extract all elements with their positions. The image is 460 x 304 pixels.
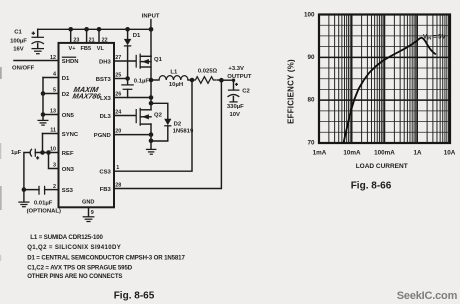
wire D1-D2-ON5 chain: [42, 78, 44, 115]
svg-text:D1: D1: [62, 76, 70, 82]
inductor L1: [151, 69, 192, 88]
chart decade gridlines: [352, 15, 418, 144]
svg-text:1A: 1A: [413, 149, 422, 156]
svg-text:ON/OFF: ON/OFF: [12, 65, 35, 71]
chart horizontal gridlines: [319, 25, 450, 132]
node Q2 drain D2 branch: [149, 101, 154, 106]
chart x-axis labels: [313, 149, 456, 156]
pin 2 SS3 wire: [45, 184, 59, 190]
svg-text:24: 24: [115, 109, 121, 115]
svg-text:REF: REF: [62, 151, 74, 157]
svg-text:PGND: PGND: [94, 133, 111, 139]
svg-text:LOAD CURRENT: LOAD CURRENT: [356, 163, 408, 170]
svg-text:SS3: SS3: [62, 188, 74, 194]
svg-text:D1: D1: [133, 33, 141, 39]
wire Q1 source to LX column: [150, 56, 152, 109]
svg-text:13: 13: [50, 109, 56, 115]
svg-text:+3.3V: +3.3V: [228, 66, 244, 72]
svg-text:V+: V+: [69, 46, 77, 52]
svg-text:80: 80: [307, 97, 315, 104]
capacitor C1: [10, 29, 44, 52]
svg-text:1: 1: [116, 165, 119, 171]
svg-text:ON5: ON5: [62, 113, 75, 119]
pin 10 REF wire: [35, 147, 58, 155]
capacitor 0.1uF BST3-LX3: [121, 78, 149, 97]
pin 24 DL3 wire: [114, 109, 136, 115]
pin 27 DH3 wire: [114, 55, 136, 61]
wire pin21: [86, 29, 88, 43]
svg-text:10µH: 10µH: [169, 82, 183, 88]
pin 4 D1 wire: [43, 72, 59, 78]
svg-text:DL3: DL3: [100, 114, 112, 120]
svg-text:D2: D2: [174, 121, 182, 127]
node INPUT junction: [149, 27, 154, 32]
svg-text:10: 10: [50, 147, 56, 153]
svg-text:SYNC: SYNC: [62, 132, 79, 138]
scan edge artifacts: [0, 67, 2, 261]
ground Q2 source: [146, 141, 157, 154]
svg-text:Fig. 8-66: Fig. 8-66: [351, 181, 392, 192]
node pin23 junction: [68, 27, 73, 32]
transistor Q2: [136, 108, 162, 126]
svg-text:4: 4: [53, 72, 56, 78]
svg-text:Q1,Q2 = SILICONIX SI9410DY: Q1,Q2 = SILICONIX SI9410DY: [27, 244, 121, 251]
svg-text:VL: VL: [97, 46, 105, 52]
svg-text:10mA: 10mA: [343, 149, 361, 156]
chart minor vertical gridlines: [329, 15, 449, 144]
svg-text:CS3: CS3: [99, 170, 111, 176]
svg-text:LX3: LX3: [100, 96, 112, 102]
svg-text:100mA: 100mA: [374, 149, 395, 156]
diode D1: [124, 29, 141, 78]
svg-text:10V: 10V: [230, 112, 241, 118]
svg-text:OTHER PINS ARE NO CONNECTS: OTHER PINS ARE NO CONNECTS: [27, 273, 122, 280]
diode D2: [151, 103, 194, 141]
svg-text:28: 28: [115, 182, 121, 188]
pin 1 CS3 wire: [114, 80, 192, 171]
wire pin22: [98, 29, 100, 43]
svg-text:70: 70: [307, 140, 315, 147]
svg-text:BST3: BST3: [96, 77, 112, 83]
svg-text:100µF: 100µF: [10, 39, 27, 45]
svg-text:0.01µF: 0.01µF: [34, 200, 53, 206]
pin 25 BST3 wire: [114, 72, 130, 80]
svg-text:(OPTIONAL): (OPTIONAL): [27, 209, 61, 215]
svg-text:16V: 16V: [13, 47, 24, 53]
svg-text:1N5819: 1N5819: [173, 128, 194, 134]
svg-text:INPUT: INPUT: [142, 14, 160, 20]
svg-text:OUTPUT: OUTPUT: [227, 74, 252, 80]
node pin22 junction: [97, 27, 102, 32]
svg-text:27: 27: [115, 55, 121, 61]
svg-text:D1 = CENTRAL SEMICONDUCTOR CMP: D1 = CENTRAL SEMICONDUCTOR CMPSH-3 OR 1N…: [27, 254, 185, 261]
svg-text:2: 2: [53, 184, 56, 190]
capacitor 0.01uF on SS3: [22, 186, 61, 215]
svg-text:ON3: ON3: [62, 167, 75, 173]
svg-text:FB3: FB3: [100, 187, 112, 193]
svg-text:1mA: 1mA: [313, 149, 327, 156]
pin 11 SYNC wire: [43, 128, 59, 153]
svg-text:DH3: DH3: [99, 59, 112, 65]
ground IC pin9: [83, 217, 95, 222]
wire pin23: [70, 29, 72, 43]
svg-text:9: 9: [91, 210, 94, 216]
wire Q1 drain to input rail: [150, 29, 152, 56]
node D2 return: [149, 139, 154, 144]
capacitor 1uF on REF: [11, 149, 39, 190]
op-amp U1 MAX786 IC body: [59, 43, 115, 207]
svg-text:C1: C1: [14, 30, 22, 36]
chart y-axis labels: [304, 12, 315, 147]
svg-text:SHDN: SHDN: [62, 59, 79, 65]
node INPUT label and stub: [142, 14, 160, 30]
svg-text:C1,C2 = AVX TPS OR SPRAGUE 595: C1,C2 = AVX TPS OR SPRAGUE 595D: [27, 264, 133, 271]
svg-text:D2: D2: [62, 92, 70, 98]
ground SS3: [18, 190, 29, 207]
transistor Q1: [136, 54, 162, 69]
wire Q2 source down: [150, 124, 152, 141]
notes text block: [27, 234, 185, 280]
svg-text:100: 100: [304, 12, 315, 19]
pin 3 ON3 wire: [49, 153, 59, 169]
pin 5 D2 wire: [41, 88, 59, 96]
pin 9 GND stub: [89, 207, 94, 216]
capacitor C2: [227, 80, 251, 118]
pin 20 PGND wire: [114, 129, 153, 137]
svg-text:3: 3: [53, 163, 56, 169]
node A CS3 sense: [190, 78, 195, 83]
svg-text:VIN = 5V: VIN = 5V: [423, 35, 446, 41]
node D1 junction: [125, 27, 130, 32]
ground ON5 chain: [38, 115, 49, 126]
node pin21 junction: [84, 27, 89, 32]
resistor 0.025ohm sense: [192, 68, 221, 83]
svg-text:Q1: Q1: [154, 57, 163, 63]
svg-text:26: 26: [115, 91, 121, 97]
svg-text:11: 11: [50, 128, 56, 134]
ground C1: [32, 49, 45, 54]
svg-text:10A: 10A: [444, 149, 456, 156]
svg-text:EFFICIENCY (%): EFFICIENCY (%): [287, 59, 296, 124]
chart efficiency curve: [344, 38, 436, 143]
node C2 tap: [232, 79, 235, 82]
svg-text:0.1µF: 0.1µF: [134, 78, 150, 84]
svg-text:0.025Ω: 0.025Ω: [198, 68, 218, 74]
node LX to L1: [149, 78, 154, 83]
svg-text:12: 12: [50, 55, 56, 61]
svg-text:25: 25: [115, 72, 121, 78]
pin 12 SHDN wire: [12, 55, 59, 71]
pin 28 FB3 wire: [114, 80, 221, 188]
svg-text:20: 20: [115, 129, 121, 135]
svg-text:L1: L1: [170, 69, 178, 75]
node B output: [219, 78, 224, 83]
pin 13 ON5 wire: [41, 109, 59, 117]
wire top input rail: [38, 28, 151, 30]
svg-text:90: 90: [307, 54, 315, 61]
svg-text:330µF: 330µF: [227, 104, 244, 110]
svg-text:GND: GND: [82, 199, 94, 205]
svg-text:Q2: Q2: [154, 113, 163, 119]
svg-text:MAX786: MAX786: [72, 91, 103, 100]
svg-text:Fig. 8-65: Fig. 8-65: [114, 291, 155, 302]
pin 26 LX3 wire: [114, 91, 153, 99]
svg-text:1µF: 1µF: [11, 150, 22, 156]
svg-text:FB5: FB5: [81, 46, 92, 52]
chart Fig 8-66 frame: [319, 15, 450, 144]
svg-text:C2: C2: [242, 89, 250, 95]
wire output: [221, 79, 233, 81]
svg-text:L1 = SUMIDA CDR125-100: L1 = SUMIDA CDR125-100: [30, 234, 103, 241]
svg-text:SeekIC.com: SeekIC.com: [397, 290, 458, 302]
svg-text:5: 5: [53, 88, 56, 94]
